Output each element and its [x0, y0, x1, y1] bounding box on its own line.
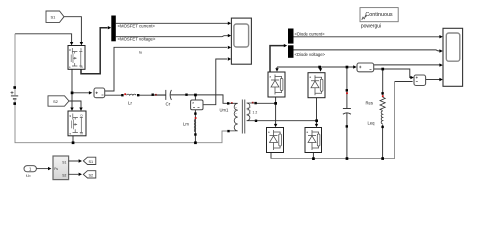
svg-text:Um1: Um1: [220, 108, 230, 113]
svg-text:Leq: Leq: [368, 121, 376, 126]
svg-text:Res: Res: [366, 100, 373, 105]
svg-text:f-b: f-b: [26, 174, 30, 178]
svg-text:S1: S1: [51, 15, 57, 20]
svg-text:S1: S1: [89, 160, 94, 164]
svg-text:Fs: Fs: [54, 167, 58, 171]
svg-text:1 2: 1 2: [253, 111, 258, 115]
svg-text:Lr: Lr: [128, 101, 133, 106]
svg-text:Iu: Iu: [139, 51, 142, 55]
svg-text:S2: S2: [89, 173, 94, 177]
svg-text:<Diode voltage>: <Diode voltage>: [295, 52, 326, 57]
svg-text:Continuous: Continuous: [365, 12, 393, 18]
svg-text:<MOSFET current>: <MOSFET current>: [118, 23, 156, 28]
svg-text:Lm: Lm: [183, 122, 189, 127]
svg-text:S2: S2: [53, 99, 59, 104]
svg-text:Cr: Cr: [166, 102, 171, 107]
svg-text:<Diode current>: <Diode current>: [295, 31, 326, 36]
svg-text:powergui: powergui: [361, 24, 381, 30]
svg-text:<MOSFET voltage>: <MOSFET voltage>: [118, 37, 156, 42]
svg-text:S2: S2: [62, 174, 66, 178]
svg-text:S1: S1: [62, 160, 66, 164]
